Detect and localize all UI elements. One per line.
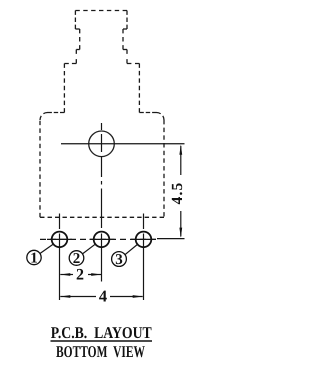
dimension 4 right arrow xyxy=(133,295,143,298)
svg-text:4: 4 xyxy=(99,286,107,305)
horizontal centerline through circle xyxy=(61,143,185,145)
leader line 2 xyxy=(82,244,95,254)
svg-text:4.5: 4.5 xyxy=(169,182,186,205)
dimension 4.5 top arrow xyxy=(179,145,182,155)
pad 3 crosshair xyxy=(131,238,156,240)
dimension 4.5 bottom arrow xyxy=(179,228,182,238)
pad 1 centerline xyxy=(59,214,61,230)
component outline (dashed silhouette, bottom view) xyxy=(40,11,164,218)
title underline xyxy=(51,340,153,342)
svg-text:P.C.B. LAYOUT: P.C.B. LAYOUT xyxy=(51,323,152,342)
svg-text:3: 3 xyxy=(115,252,123,268)
pad row dashed line xyxy=(40,238,157,240)
svg-text:2: 2 xyxy=(73,251,81,267)
dimension 2 right arrow xyxy=(91,273,101,276)
pad 1 xyxy=(52,232,68,248)
dimension 4 line xyxy=(60,296,96,298)
leader line 1 xyxy=(40,244,53,253)
leader line 3 xyxy=(125,245,137,255)
pad 3 centerline xyxy=(143,214,145,230)
vertical centerline through circle and pad 2 (dash-dot) xyxy=(101,123,103,228)
circled number 2 xyxy=(69,251,84,266)
pad 2 crosshair xyxy=(90,238,115,240)
svg-text:BOTTOM VIEW: BOTTOM VIEW xyxy=(56,342,145,361)
circled number 1 xyxy=(27,250,41,264)
dimension 4 left arrow xyxy=(60,295,70,298)
mounting hole circle xyxy=(89,131,115,157)
dimension 2 line xyxy=(60,274,73,276)
dimension 4.5 line xyxy=(180,146,182,175)
pad 2 xyxy=(94,232,110,248)
circled number 3 xyxy=(112,252,127,267)
svg-text:1: 1 xyxy=(30,251,38,267)
svg-text:2: 2 xyxy=(76,267,84,284)
dimension 2 left arrow xyxy=(60,273,70,276)
pad 3 xyxy=(136,232,152,248)
pad 1 crosshair xyxy=(47,238,72,240)
extension line to 4.5 dimension (bottom) xyxy=(157,238,185,240)
